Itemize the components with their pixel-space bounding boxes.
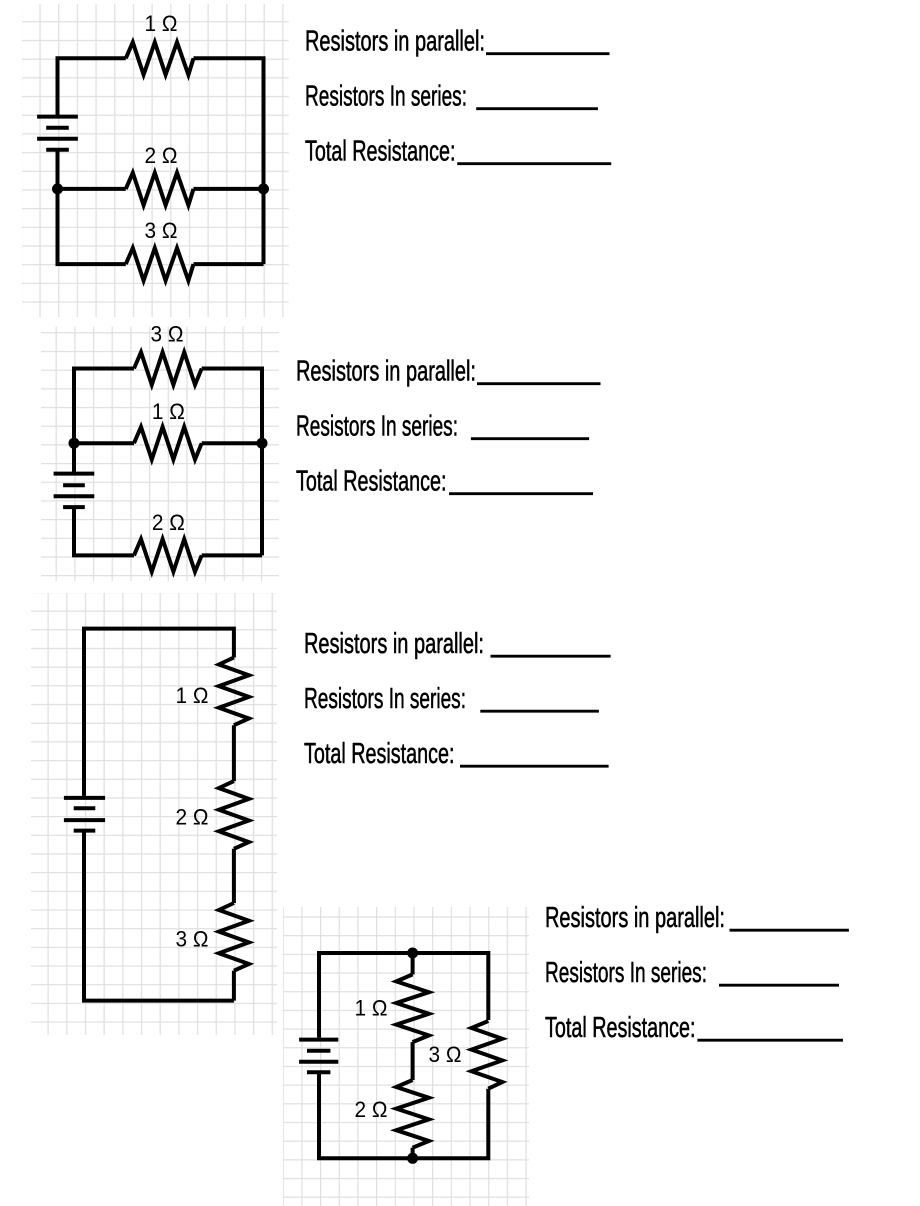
wire: circuit 2 middle branch right segment bbox=[202, 441, 262, 445]
wire: circuit 2 left rail below battery and bottom-left corner bbox=[74, 507, 134, 555]
wire: circuit 4 left rail below battery and bottom wire left half bbox=[319, 1072, 413, 1158]
svg-text:2 Ω: 2 Ω bbox=[145, 143, 178, 168]
wire: circuit 2 top-right corner and right rail bbox=[202, 369, 262, 556]
svg-text:Resistors In series:: Resistors In series: bbox=[304, 683, 466, 715]
node: circuit 2 right junction bbox=[257, 438, 268, 449]
resistor 2 Ohm (circuit 3) bbox=[219, 781, 249, 849]
node: circuit 2 left junction bbox=[69, 438, 80, 449]
wire: circuit 4 middle branch upper stub bbox=[411, 953, 415, 974]
resistor 3 Ohm (circuit 2 top branch) bbox=[134, 352, 202, 385]
svg-text:2 Ω: 2 Ω bbox=[152, 510, 185, 535]
resistor 3 Ohm (circuit 3) bbox=[219, 903, 249, 971]
wire: circuit 4 middle branch between R1 and R2 bbox=[411, 1042, 415, 1080]
battery B1 (circuit 1) bbox=[37, 117, 78, 150]
node: circuit 1 left junction bbox=[52, 183, 63, 194]
wire: circuit 1 middle branch left segment bbox=[58, 187, 126, 191]
svg-text:1 Ω: 1 Ω bbox=[145, 11, 178, 36]
svg-text:3 Ω: 3 Ω bbox=[145, 218, 178, 243]
resistor 3 Ohm (circuit 4 right branch) bbox=[472, 1021, 503, 1089]
svg-text:3 Ω: 3 Ω bbox=[429, 1042, 462, 1067]
wire: circuit 1 top-right and right rail bbox=[194, 58, 264, 264]
svg-text:3 Ω: 3 Ω bbox=[176, 927, 209, 952]
wire: circuit 4 middle branch lower stub bbox=[411, 1148, 415, 1159]
wire: circuit 3 right rail between R2 and R3 bbox=[232, 849, 236, 903]
resistor 1 Ohm (circuit 3) bbox=[219, 658, 249, 726]
svg-text:Total Resistance:: Total Resistance: bbox=[545, 1012, 696, 1044]
svg-text:3 Ω: 3 Ω bbox=[151, 322, 184, 347]
svg-text:2 Ω: 2 Ω bbox=[176, 805, 209, 830]
wire: circuit 3 left rail below battery and bottom wire bbox=[84, 831, 234, 1001]
resistor 1 Ohm (circuit 1 top branch) bbox=[126, 42, 194, 75]
node: circuit 1 right junction bbox=[258, 183, 269, 194]
resistor 2 Ohm (circuit 1 middle branch) bbox=[126, 173, 194, 206]
wire: circuit 4 top wire right half and right rail upper bbox=[413, 953, 489, 1020]
svg-text:Resistors in parallel:: Resistors in parallel: bbox=[304, 628, 484, 660]
wire: circuit 2 top-left corner to R (3 Ohm) bbox=[74, 369, 134, 444]
wire: circuit 1 middle branch right segment bbox=[194, 187, 264, 191]
svg-text:1 Ω: 1 Ω bbox=[355, 996, 388, 1021]
battery B4 (circuit 4) bbox=[299, 1040, 338, 1073]
svg-text:1 Ω: 1 Ω bbox=[176, 683, 209, 708]
svg-text:Total Resistance:: Total Resistance: bbox=[296, 466, 447, 498]
wire: circuit 1 bottom branch right segment bbox=[194, 262, 264, 266]
svg-text:Resistors In series:: Resistors In series: bbox=[305, 81, 467, 113]
resistor 2 Ohm (circuit 2 bottom branch) bbox=[134, 539, 202, 572]
wire: circuit 2 bottom branch right segment bbox=[202, 553, 262, 557]
wire: circuit 4 top wire and left rail down to battery bbox=[319, 953, 413, 1038]
battery B2 (circuit 2) bbox=[54, 474, 95, 508]
svg-text:2 Ω: 2 Ω bbox=[355, 1097, 388, 1122]
svg-text:Resistors In series:: Resistors In series: bbox=[296, 411, 458, 443]
wire: circuit 3 top wire and left rail down to battery bbox=[84, 629, 234, 796]
svg-text:Resistors In series:: Resistors In series: bbox=[545, 957, 707, 989]
resistor 2 Ohm (circuit 4 middle branch) bbox=[396, 1080, 429, 1148]
wire: circuit 3 right rail between R1 and R2 bbox=[232, 725, 236, 781]
node: circuit 4 top junction bbox=[407, 948, 418, 959]
svg-text:Total Resistance:: Total Resistance: bbox=[305, 136, 456, 168]
battery B3 (circuit 3) bbox=[64, 798, 105, 831]
svg-text:Resistors in parallel:: Resistors in parallel: bbox=[296, 356, 476, 388]
wire: circuit 4 right rail below R3 and bottom wire right half bbox=[413, 1089, 489, 1159]
resistor 1 Ohm (circuit 2 middle branch) bbox=[134, 427, 202, 460]
resistor 1 Ohm (circuit 4 middle branch) bbox=[396, 974, 429, 1042]
wire: circuit 3 right rail below R3 bbox=[232, 971, 236, 1001]
wire: circuit 1 left rail below battery down to bottom wire bbox=[58, 150, 126, 264]
wire: circuit 1 top-left (from battery top up and right to R1) bbox=[58, 58, 126, 116]
node: circuit 4 bottom junction bbox=[407, 1153, 418, 1164]
svg-text:Total Resistance:: Total Resistance: bbox=[304, 738, 455, 770]
resistor 3 Ohm (circuit 1 bottom branch) bbox=[126, 248, 194, 281]
svg-text:1 Ω: 1 Ω bbox=[152, 399, 185, 424]
svg-text:Resistors in parallel:: Resistors in parallel: bbox=[545, 902, 725, 934]
wire: circuit 2 middle branch left segment bbox=[74, 441, 134, 445]
svg-text:Resistors in parallel:: Resistors in parallel: bbox=[305, 26, 485, 58]
wire: circuit 2 left rail from junction down to battery bbox=[72, 443, 76, 473]
